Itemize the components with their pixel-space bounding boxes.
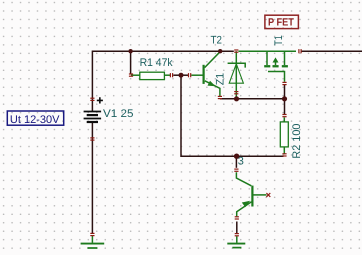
- wire top rail right segment: [302, 50, 362, 52]
- junction dot node 3: [234, 154, 239, 159]
- pin tick rail right of FET: [298, 49, 301, 53]
- pin tick FET gate: [282, 82, 286, 85]
- wire T2 emitter to gate junction: [220, 98, 285, 100]
- pin tick battery bottom: [90, 137, 94, 140]
- svg-text:R1 47k: R1 47k: [140, 57, 173, 69]
- zener diode Z1: [228, 51, 246, 96]
- no-connect X on Q base: [266, 193, 270, 197]
- pin tick mid ground: [235, 233, 239, 236]
- junction dot R1-T2 base node: [179, 73, 184, 78]
- wire R1 right to T2 base: [173, 74, 188, 76]
- wire gate vertical lower part: [284, 85, 286, 99]
- svg-text:Z1: Z1: [215, 73, 227, 85]
- resistor R1: [131, 72, 170, 79]
- wire junction to R2 top: [284, 99, 286, 114]
- wire battery top: [91, 51, 93, 112]
- wire rail to R1 left: [130, 51, 132, 74]
- svg-text:T2: T2: [211, 35, 222, 47]
- label box P FET: [265, 15, 299, 28]
- junction dot gate-R2: [282, 96, 287, 101]
- svg-text:V1 25: V1 25: [103, 108, 134, 120]
- pin tick R2 top: [282, 114, 286, 117]
- wire battery bottom to ground: [91, 123, 93, 234]
- pin tick T2 emitter: [218, 96, 222, 99]
- label box Ut 12-30V: [7, 111, 63, 126]
- wire top rail left segment: [92, 50, 233, 52]
- junction dot rail-T2 collector: [218, 49, 222, 53]
- svg-text:Ut 12-30V: Ut 12-30V: [10, 114, 60, 126]
- pin tick T2 base: [188, 73, 191, 77]
- pin tick battery top: [90, 98, 94, 101]
- pin tick Z1 bottom: [234, 91, 238, 94]
- junction dot rail-R1: [128, 49, 132, 53]
- wire node3 down to Q collector: [235, 156, 237, 168]
- svg-text:R2 100: R2 100: [291, 124, 303, 159]
- pin tick R1 left: [129, 73, 133, 76]
- transistor T2: [191, 52, 220, 97]
- battery V1: [84, 112, 102, 123]
- ground (left): [81, 236, 105, 248]
- svg-text:T1: T1: [273, 35, 285, 45]
- junction dot Z1 bottom: [234, 96, 239, 101]
- pin tick Q emitter: [235, 216, 239, 219]
- transistor Q (bottom PNP): [236, 172, 266, 216]
- resistor R2: [280, 117, 288, 154]
- wire Q emitter to mid ground: [236, 222, 238, 234]
- pin tick R1 right: [170, 73, 173, 77]
- pin tick left ground: [90, 233, 94, 236]
- pin tick Z1 top: [234, 49, 238, 52]
- pin tick Q collector: [234, 169, 238, 172]
- battery plus sign: [97, 97, 103, 103]
- wire node R1right down and across to R2 bottom: [181, 75, 284, 156]
- pin tick R2 bottom: [282, 153, 286, 156]
- ground (middle): [227, 236, 245, 247]
- P-FET T1: [239, 51, 297, 82]
- svg-text:P FET: P FET: [268, 17, 294, 29]
